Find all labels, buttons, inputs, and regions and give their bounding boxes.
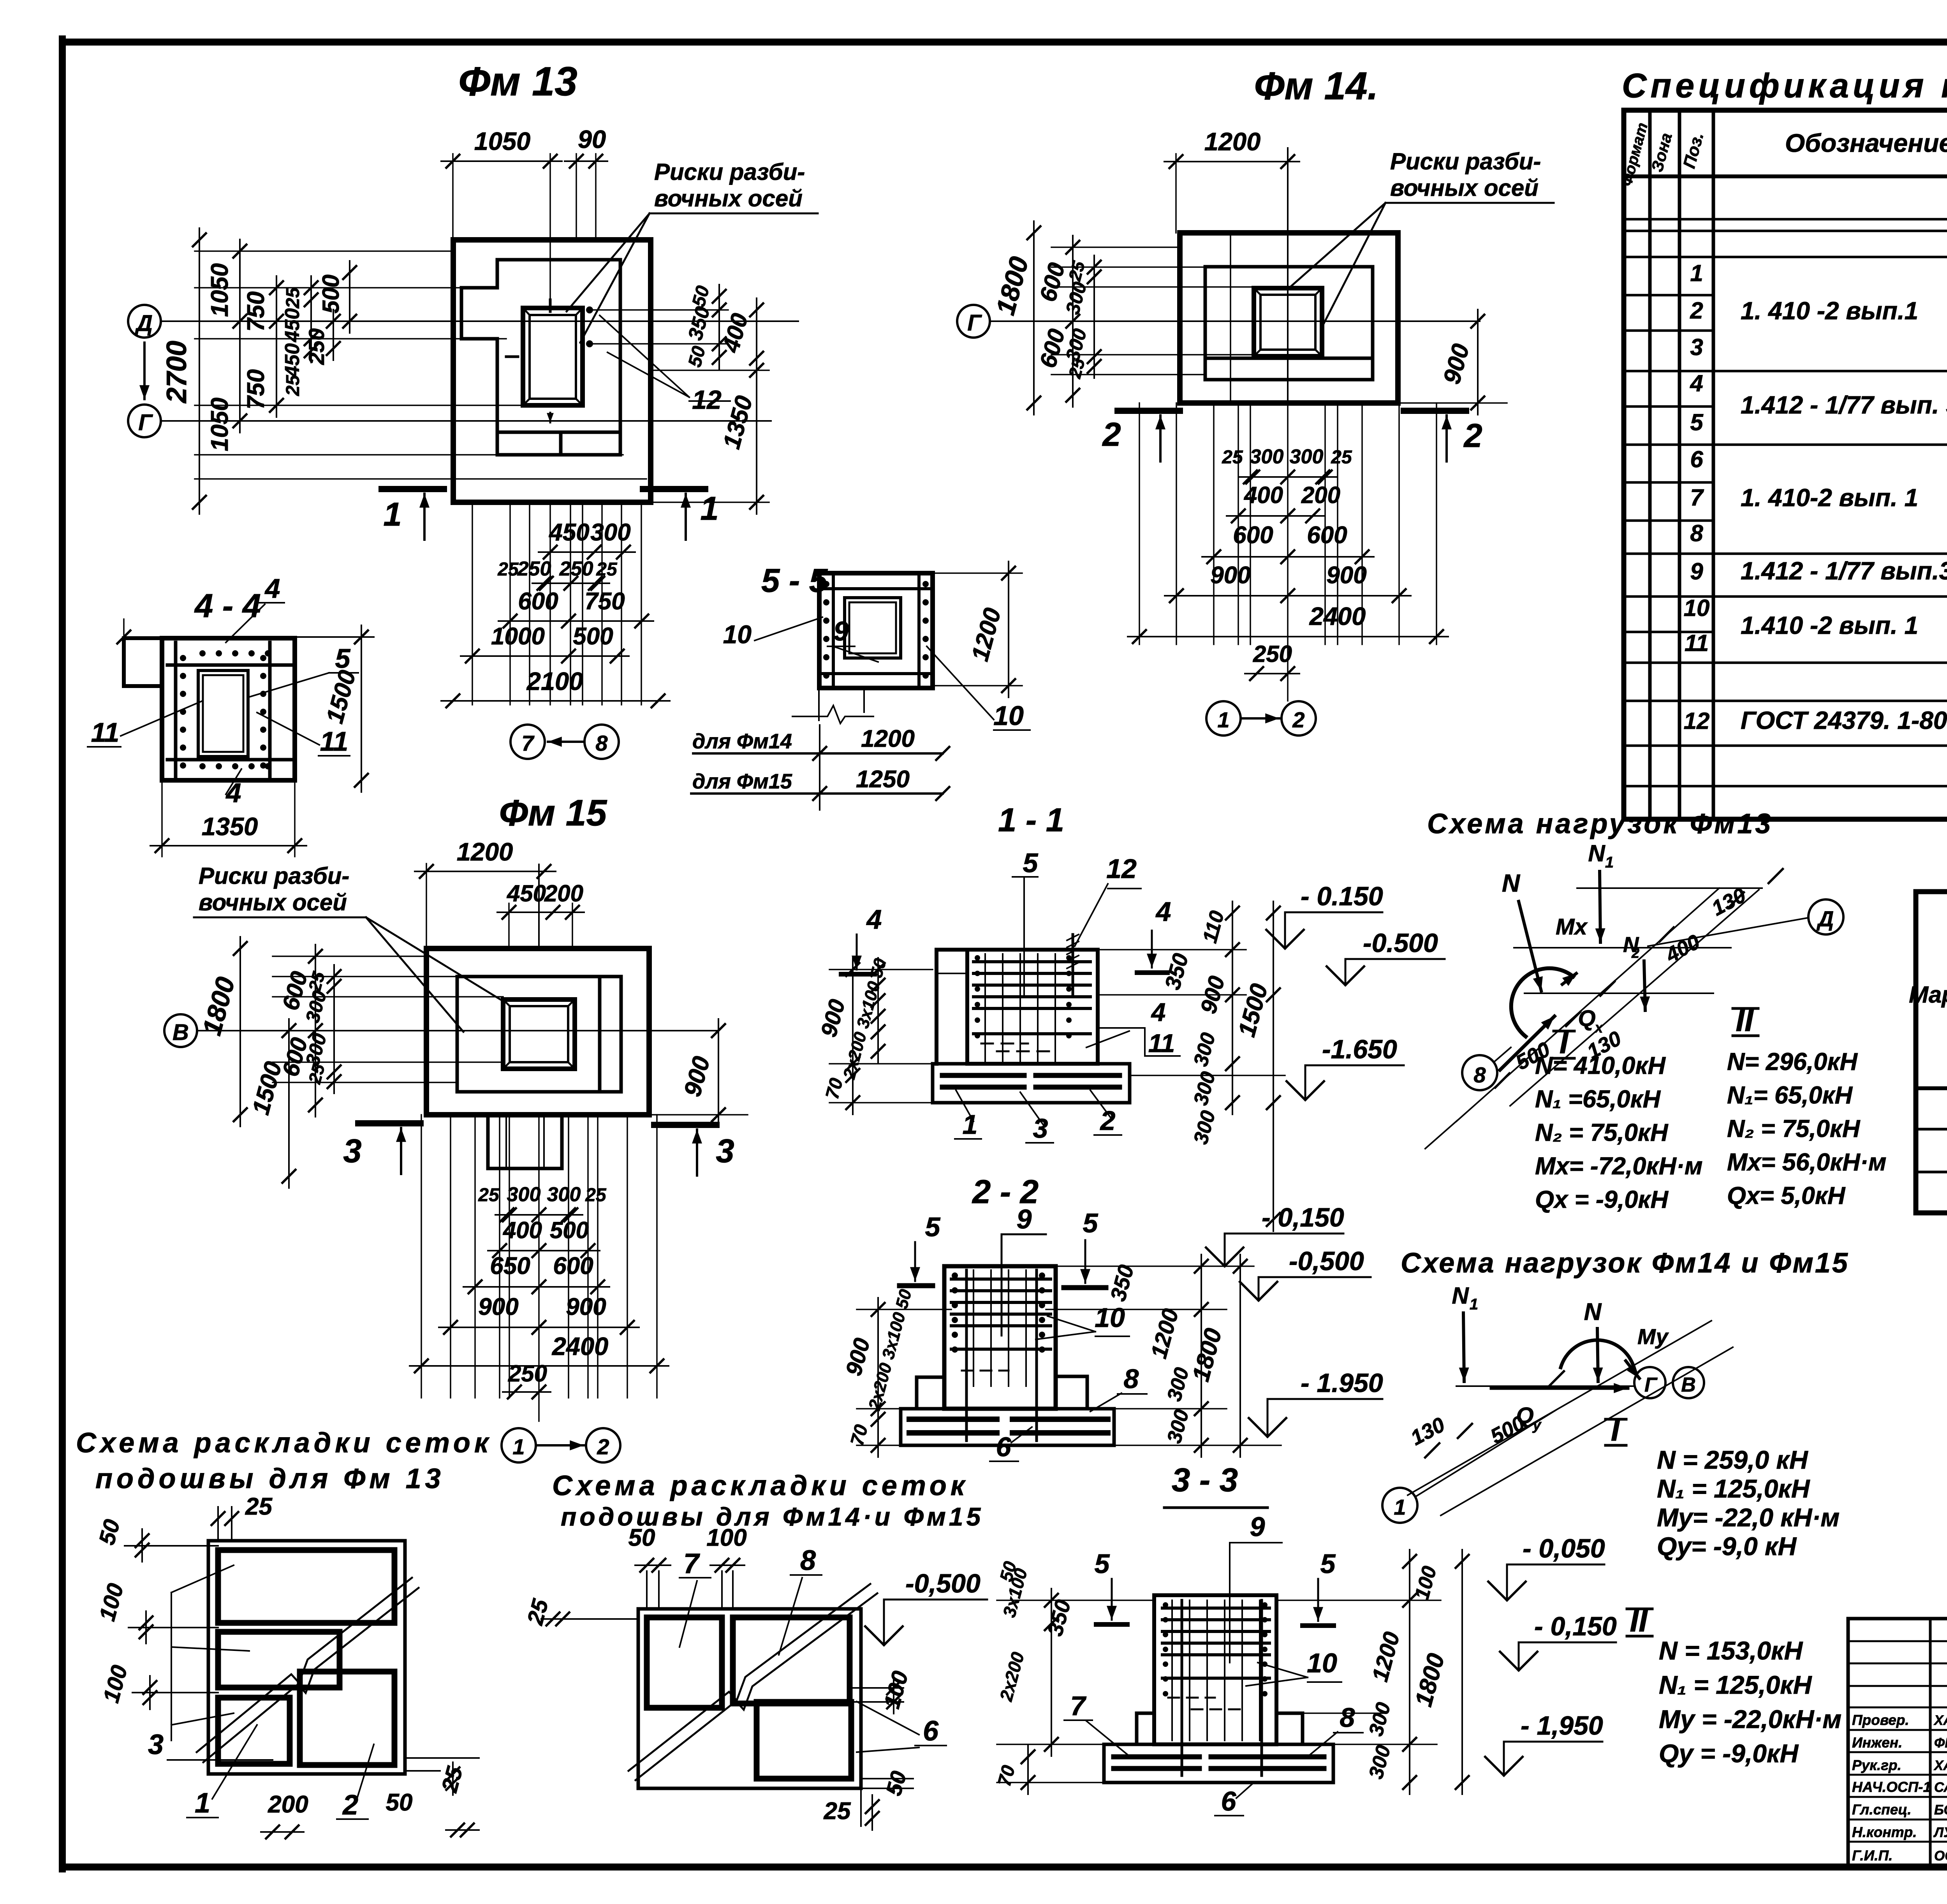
svg-text:1050: 1050 xyxy=(474,127,531,155)
svg-text:Г.И.П.: Г.И.П. xyxy=(1852,1848,1892,1864)
svg-text:1.412 - 1/77 вып.3: 1.412 - 1/77 вып.3 xyxy=(1741,557,1947,585)
svg-text:ГОСТ 24379. 1-80: ГОСТ 24379. 1-80 xyxy=(1741,706,1947,734)
svg-text:300: 300 xyxy=(1290,445,1324,468)
11 ground mark 4 arrow xyxy=(856,934,858,970)
svg-text:450: 450 xyxy=(281,343,304,378)
svg-text:2: 2 xyxy=(1631,945,1639,961)
svg-text:2: 2 xyxy=(342,1790,358,1821)
circles 1 2 under Fm15 xyxy=(502,1428,536,1462)
svg-text:N = 153,0кН: N = 153,0кН xyxy=(1659,1636,1803,1665)
svg-text:1050: 1050 xyxy=(206,263,233,317)
svg-text:10: 10 xyxy=(1095,1302,1125,1333)
svg-text:Риски разби-: Риски разби- xyxy=(1390,148,1541,174)
svg-text:11: 11 xyxy=(1685,630,1709,656)
22 rebar cage xyxy=(973,1270,974,1386)
svg-text:8: 8 xyxy=(1340,1702,1355,1733)
svg-text:Обозначение: Обозначение xyxy=(1785,128,1947,157)
svg-text:1: 1 xyxy=(1690,260,1703,286)
svg-text:I: I xyxy=(1611,1412,1621,1448)
svg-text:9: 9 xyxy=(1017,1204,1032,1234)
svg-text:Рук.гр.: Рук.гр. xyxy=(1852,1757,1901,1773)
svg-text:5: 5 xyxy=(1320,1549,1336,1579)
svg-text:600: 600 xyxy=(518,588,558,615)
svg-text:N₂ = 75,0кН: N₂ = 75,0кН xyxy=(1727,1115,1861,1142)
svg-text:Схема нагрузок Фм14 и Фм15: Схема нагрузок Фм14 и Фм15 xyxy=(1401,1248,1849,1279)
svg-text:Риски разби-: Риски разби- xyxy=(654,159,805,185)
svg-text:6: 6 xyxy=(1221,1786,1237,1816)
svg-text:2700: 2700 xyxy=(161,341,192,404)
svg-text:ОСТАШЕВСКИЙ: ОСТАШЕВСКИЙ xyxy=(1934,1848,1947,1864)
mesh1415 break line xyxy=(628,1584,870,1771)
svg-text:Mу= -22,0 кН·м: Mу= -22,0 кН·м xyxy=(1657,1503,1840,1532)
svg-text:6: 6 xyxy=(1690,446,1703,472)
svg-text:100: 100 xyxy=(706,1524,746,1551)
33 left dims xyxy=(1051,1589,1052,1756)
svg-text:-0,500: -0,500 xyxy=(905,1569,981,1598)
circles 1 2 under Fm14 xyxy=(1206,701,1241,736)
svg-text:Г: Г xyxy=(138,410,153,435)
svg-text:11: 11 xyxy=(320,726,349,757)
svg-text:250: 250 xyxy=(508,1360,547,1387)
Fm14 top dim 1200 xyxy=(1175,154,1177,233)
svg-text:250: 250 xyxy=(304,328,329,365)
svg-text:- 1,950: - 1,950 xyxy=(1521,1711,1603,1740)
svg-text:N: N xyxy=(1502,869,1521,897)
33 right dims xyxy=(1409,1550,1410,1794)
svg-text:Qу = -9,0кН: Qу = -9,0кН xyxy=(1659,1739,1799,1768)
svg-text:25: 25 xyxy=(245,1493,273,1520)
svg-text:7: 7 xyxy=(1070,1691,1087,1721)
svg-text:25: 25 xyxy=(585,1185,607,1205)
svg-text:ХАНИН: ХАНИН xyxy=(1933,1758,1947,1773)
22 footing xyxy=(901,1409,1114,1445)
Fm15 top dims xyxy=(426,864,427,948)
11 rebar cage xyxy=(984,954,986,1061)
svg-text:СААКЬЯНЦ: СААКЬЯНЦ xyxy=(1934,1780,1947,1795)
svg-text:1: 1 xyxy=(1394,1495,1406,1519)
33 footing xyxy=(1104,1744,1333,1783)
svg-text:1250: 1250 xyxy=(856,766,910,793)
svg-text:Г: Г xyxy=(1644,1374,1658,1396)
svg-text:N₁ = 125,0кН: N₁ = 125,0кН xyxy=(1659,1670,1812,1699)
svg-text:2400: 2400 xyxy=(551,1332,609,1360)
svg-text:2: 2 xyxy=(597,1434,609,1459)
svg-text:4: 4 xyxy=(866,904,882,934)
svg-text:-0,500: -0,500 xyxy=(1289,1246,1364,1276)
22 body xyxy=(944,1266,1056,1409)
svg-text:250: 250 xyxy=(559,558,593,580)
svg-text:12: 12 xyxy=(1684,708,1710,734)
svg-text:450: 450 xyxy=(507,880,546,906)
load scheme Fm14/15 diagram xyxy=(1408,1321,1711,1495)
svg-text:12: 12 xyxy=(692,385,722,415)
svg-text:1: 1 xyxy=(700,490,718,527)
svg-text:Qу= -9,0 кН: Qу= -9,0 кН xyxy=(1657,1532,1797,1561)
svg-text:N= 296,0кН: N= 296,0кН xyxy=(1727,1048,1858,1075)
svg-text:1: 1 xyxy=(195,1788,210,1819)
Fm15 right dim 900 xyxy=(649,1114,748,1116)
svg-text:2: 2 xyxy=(1292,707,1304,732)
svg-text:50: 50 xyxy=(628,1524,655,1551)
svg-text:N: N xyxy=(1584,1299,1602,1325)
section marks 3-3 xyxy=(358,1120,421,1126)
svg-text:500: 500 xyxy=(550,1217,589,1243)
Fm13 right dims xyxy=(592,309,728,311)
svg-text:Схема раскладки сеток: Схема раскладки сеток xyxy=(552,1470,968,1501)
svg-text:Qх = -9,0кН: Qх = -9,0кН xyxy=(1535,1186,1669,1213)
svg-text:Qх= 5,0кН: Qх= 5,0кН xyxy=(1727,1182,1846,1209)
svg-text:N= 410,0кН: N= 410,0кН xyxy=(1535,1052,1666,1079)
svg-text:600: 600 xyxy=(553,1253,593,1279)
svg-text:Провер.: Провер. xyxy=(1852,1712,1909,1728)
svg-text:250: 250 xyxy=(517,558,551,580)
svg-text:1: 1 xyxy=(1217,707,1229,732)
Fm13 bottom dims xyxy=(472,502,473,705)
svg-text:- 1.950: - 1.950 xyxy=(1301,1368,1383,1398)
svg-text:9: 9 xyxy=(834,616,849,646)
load scheme Fm13 diagram xyxy=(1577,887,1762,889)
44 dims xyxy=(124,636,374,638)
svg-text:2: 2 xyxy=(1100,1105,1116,1136)
svg-text:5: 5 xyxy=(925,1212,941,1242)
mesh layout Fm14/15 drawing xyxy=(638,1609,861,1788)
svg-text:Фм 14.: Фм 14. xyxy=(1254,64,1378,108)
svg-text:Q: Q xyxy=(1578,1006,1595,1031)
svg-text:6: 6 xyxy=(996,1432,1012,1462)
svg-text:500: 500 xyxy=(318,275,344,313)
svg-text:4: 4 xyxy=(1151,998,1166,1026)
svg-text:450: 450 xyxy=(281,308,304,343)
svg-text:900: 900 xyxy=(1210,562,1250,589)
svg-text:8: 8 xyxy=(800,1545,816,1576)
svg-text:25: 25 xyxy=(1222,447,1243,468)
svg-text:Марка элемента: Марка элемента xyxy=(1909,982,1947,1008)
svg-text:2400: 2400 xyxy=(1309,602,1366,630)
svg-text:ХАНИН: ХАНИН xyxy=(1933,1713,1947,1728)
svg-text:200: 200 xyxy=(1301,482,1340,508)
dims Fm14/15 scheme xyxy=(1425,1443,1439,1457)
svg-text:3: 3 xyxy=(1690,334,1703,360)
axis D bubble xyxy=(1648,918,1808,946)
svg-text:200: 200 xyxy=(544,880,583,906)
svg-text:2: 2 xyxy=(1690,297,1703,324)
svg-text:1350: 1350 xyxy=(202,812,258,841)
svg-text:N: N xyxy=(1588,840,1605,866)
Fm13 left dimension chains xyxy=(195,250,453,252)
svg-text:11: 11 xyxy=(91,717,120,748)
svg-text:БОЯРЧЕНКО: БОЯРЧЕНКО xyxy=(1934,1802,1947,1818)
Fm15 bottom dims xyxy=(421,1115,422,1398)
axis D xyxy=(128,305,161,338)
svg-text:3: 3 xyxy=(148,1729,164,1760)
svg-text:10: 10 xyxy=(993,700,1024,731)
svg-text:- 0.150: - 0.150 xyxy=(1301,882,1383,911)
section marks 2-2 xyxy=(1118,408,1180,414)
svg-text:10: 10 xyxy=(1684,595,1710,621)
svg-text:10: 10 xyxy=(723,620,752,649)
svg-text:подошвы для Фм14·и Фм15: подошвы для Фм14·и Фм15 xyxy=(561,1502,984,1531)
svg-text:Инжен.: Инжен. xyxy=(1852,1735,1902,1751)
svg-text:9: 9 xyxy=(1690,558,1703,584)
11 body xyxy=(937,950,967,1064)
svg-text:600: 600 xyxy=(1233,522,1273,549)
svg-text:25: 25 xyxy=(478,1185,500,1205)
svg-text:6: 6 xyxy=(923,1716,939,1747)
Fm15 center axis xyxy=(538,864,540,948)
svg-text:400: 400 xyxy=(503,1217,542,1243)
svg-text:вочных осей: вочных осей xyxy=(199,889,347,915)
svg-text:Н.контр.: Н.контр. xyxy=(1852,1824,1917,1840)
Fm14 bottom dims xyxy=(1139,403,1140,644)
svg-text:500: 500 xyxy=(573,623,613,650)
svg-text:x: x xyxy=(1594,1020,1604,1036)
svg-text:1200: 1200 xyxy=(861,725,915,752)
section mark 1-1 at plan xyxy=(382,486,444,492)
22 ground mark 5 arrow left xyxy=(914,1242,916,1281)
svg-text:вочных осей: вочных осей xyxy=(1390,175,1539,201)
svg-text:Mу = -22,0кН·м: Mу = -22,0кН·м xyxy=(1659,1705,1841,1733)
Fm14 center axis xyxy=(1287,148,1289,403)
svg-text:N = 259,0 кН: N = 259,0 кН xyxy=(1657,1445,1808,1474)
svg-text:- 0,050: - 0,050 xyxy=(1523,1534,1605,1563)
svg-text:Mx: Mx xyxy=(1556,914,1588,940)
55 break line below xyxy=(818,686,820,720)
svg-text:1200: 1200 xyxy=(457,838,513,866)
svg-text:600: 600 xyxy=(1307,522,1347,549)
svg-text:1000: 1000 xyxy=(491,623,545,650)
svg-text:900: 900 xyxy=(478,1293,518,1320)
svg-text:750: 750 xyxy=(584,588,625,615)
svg-text:300: 300 xyxy=(1250,445,1284,468)
svg-text:8: 8 xyxy=(1473,1063,1486,1087)
svg-text:450: 450 xyxy=(548,519,589,546)
svg-text:11: 11 xyxy=(1148,1029,1175,1058)
svg-text:900: 900 xyxy=(566,1293,606,1320)
svg-text:900: 900 xyxy=(1326,562,1366,589)
33 rebar cage xyxy=(1171,1600,1173,1740)
svg-text:1: 1 xyxy=(1470,1296,1478,1313)
svg-text:5: 5 xyxy=(1083,1208,1098,1238)
svg-text:1. 410 -2 вып.1: 1. 410 -2 вып.1 xyxy=(1741,297,1918,325)
svg-text:N₁= 65,0кН: N₁= 65,0кН xyxy=(1727,1082,1853,1109)
svg-text:Д: Д xyxy=(1817,906,1834,931)
svg-text:Mx= -72,0кН·м: Mx= -72,0кН·м xyxy=(1535,1153,1702,1180)
svg-text:В: В xyxy=(173,1020,189,1045)
33 body xyxy=(1154,1595,1276,1744)
svg-text:N₂ = 75,0кН: N₂ = 75,0кН xyxy=(1535,1119,1669,1146)
svg-text:N: N xyxy=(1452,1283,1469,1309)
svg-text:25: 25 xyxy=(283,287,303,309)
signature table xyxy=(1848,1619,1947,1867)
svg-text:для Фм15: для Фм15 xyxy=(692,770,792,793)
svg-text:-1.650: -1.650 xyxy=(1322,1035,1397,1064)
svg-text:1 - 1: 1 - 1 xyxy=(998,802,1064,839)
11 left dims xyxy=(829,969,933,970)
axis bubble 8 xyxy=(1462,1055,1497,1090)
circles 7 8 under Fm13 xyxy=(511,725,545,759)
svg-text:Гл.спец.: Гл.спец. xyxy=(1852,1802,1912,1818)
Fm14 left dims xyxy=(1051,246,1180,248)
svg-text:5: 5 xyxy=(1095,1549,1110,1579)
svg-text:200: 200 xyxy=(268,1791,308,1818)
svg-text:25: 25 xyxy=(596,559,618,580)
page frame xyxy=(59,39,66,1869)
svg-text:1.412 - 1/77 вып. 3: 1.412 - 1/77 вып. 3 xyxy=(1741,391,1947,419)
svg-text:5: 5 xyxy=(1690,409,1704,435)
svg-text:1. 410-2 вып. 1: 1. 410-2 вып. 1 xyxy=(1741,484,1918,512)
svg-text:подошвы для Фм 13: подошвы для Фм 13 xyxy=(95,1463,445,1494)
Fm15 lower step xyxy=(488,1115,562,1168)
22 vertical rebars into footing xyxy=(965,1270,968,1441)
svg-text:Фм 15: Фм 15 xyxy=(499,792,607,834)
Fm14 right dim 900 xyxy=(1398,402,1507,404)
svg-text:Mx= 56,0кН·м: Mx= 56,0кН·м xyxy=(1727,1149,1886,1176)
svg-text:9: 9 xyxy=(1250,1512,1265,1542)
svg-text:3: 3 xyxy=(343,1133,361,1170)
axis G Fm14 xyxy=(957,305,990,338)
svg-text:Схема нагрузок Фм13: Схема нагрузок Фм13 xyxy=(1427,808,1773,839)
svg-text:- 0,150: - 0,150 xyxy=(1534,1612,1617,1641)
svg-text:300: 300 xyxy=(507,1183,541,1206)
svg-text:4: 4 xyxy=(1155,896,1171,927)
axis V xyxy=(164,1014,197,1047)
svg-text:25: 25 xyxy=(497,559,519,580)
svg-text:ФЕДОТОВА: ФЕДОТОВА xyxy=(1934,1735,1947,1751)
svg-text:300: 300 xyxy=(590,519,630,546)
svg-text:7: 7 xyxy=(1690,484,1704,510)
svg-text:Схема раскладки сеток: Схема раскладки сеток xyxy=(76,1427,492,1459)
mesh13 break line xyxy=(197,1578,412,1752)
svg-text:1: 1 xyxy=(512,1434,525,1459)
svg-text:90: 90 xyxy=(578,125,606,153)
svg-text:3: 3 xyxy=(716,1133,734,1170)
svg-text:3 - 3: 3 - 3 xyxy=(1172,1462,1238,1499)
11 anchor bolt xyxy=(1072,934,1074,997)
svg-text:8: 8 xyxy=(1690,520,1703,546)
svg-text:250: 250 xyxy=(1253,641,1292,667)
svg-text:Д: Д xyxy=(134,311,153,336)
svg-text:для Фм14: для Фм14 xyxy=(692,730,792,753)
svg-text:5: 5 xyxy=(1023,848,1039,878)
svg-text:750: 750 xyxy=(243,369,269,409)
svg-text:2100: 2100 xyxy=(526,667,583,695)
mesh layout Fm13 drawing xyxy=(208,1541,405,1774)
svg-text:Спецификация к фундаментам: Спецификация к фундаментам Фм13- Фм15 xyxy=(1622,66,1947,105)
svg-text:7: 7 xyxy=(521,731,535,755)
svg-text:ЛУЦЕНКО: ЛУЦЕНКО xyxy=(1933,1825,1947,1840)
33 vertical rebars into footing xyxy=(1181,1600,1183,1776)
svg-text:650: 650 xyxy=(490,1253,530,1279)
svg-text:1: 1 xyxy=(1605,854,1614,871)
steel table frame xyxy=(1916,892,1947,1213)
svg-text:25: 25 xyxy=(283,375,303,396)
svg-text:-0.500: -0.500 xyxy=(1363,928,1438,958)
11 footing xyxy=(933,1064,1130,1103)
22 left dims xyxy=(877,1298,879,1420)
svg-text:Му: Му xyxy=(1637,1324,1669,1349)
svg-text:N₁ = 125,0кН: N₁ = 125,0кН xyxy=(1657,1474,1810,1503)
axis G xyxy=(128,405,161,437)
svg-text:10: 10 xyxy=(1307,1648,1337,1678)
11 right dims xyxy=(1098,949,1246,950)
svg-text:300: 300 xyxy=(547,1183,581,1206)
svg-text:2: 2 xyxy=(1102,416,1121,453)
svg-text:25: 25 xyxy=(824,1798,851,1825)
svg-text:Фм 13: Фм 13 xyxy=(458,59,577,104)
Fm15 left dims xyxy=(273,956,426,957)
anchor bolts 12 xyxy=(586,306,593,313)
svg-text:- 0,150: - 0,150 xyxy=(1262,1203,1344,1232)
svg-text:750: 750 xyxy=(243,291,269,331)
svg-text:N₁ =65,0кН: N₁ =65,0кН xyxy=(1535,1086,1661,1113)
svg-text:400: 400 xyxy=(1244,482,1283,508)
svg-text:2: 2 xyxy=(1463,417,1482,454)
svg-text:4: 4 xyxy=(1690,370,1703,396)
svg-text:Риски разби-: Риски разби- xyxy=(199,863,349,889)
Fm13 top dims xyxy=(452,154,454,240)
svg-text:НАЧ.ОСП-1: НАЧ.ОСП-1 xyxy=(1852,1779,1931,1795)
svg-text:8: 8 xyxy=(1124,1364,1139,1394)
svg-text:1050: 1050 xyxy=(206,398,233,451)
svg-text:50: 50 xyxy=(386,1789,413,1816)
svg-text:Г: Г xyxy=(967,310,982,336)
svg-text:3: 3 xyxy=(1033,1113,1048,1144)
svg-text:4: 4 xyxy=(264,573,280,604)
44 rebar lines xyxy=(174,642,178,777)
svg-text:12: 12 xyxy=(1106,853,1137,884)
22 right dims xyxy=(1201,1255,1202,1457)
svg-text:1: 1 xyxy=(383,496,401,533)
svg-text:25: 25 xyxy=(1331,447,1352,468)
svg-text:В: В xyxy=(1681,1374,1696,1396)
svg-text:7: 7 xyxy=(683,1548,700,1579)
svg-text:1200: 1200 xyxy=(1204,127,1261,156)
svg-text:8: 8 xyxy=(595,731,608,755)
svg-text:1.410 -2 вып. 1: 1.410 -2 вып. 1 xyxy=(1741,611,1918,639)
svg-text:вочных осей: вочных осей xyxy=(654,185,803,211)
spec table frame xyxy=(1624,110,1947,819)
